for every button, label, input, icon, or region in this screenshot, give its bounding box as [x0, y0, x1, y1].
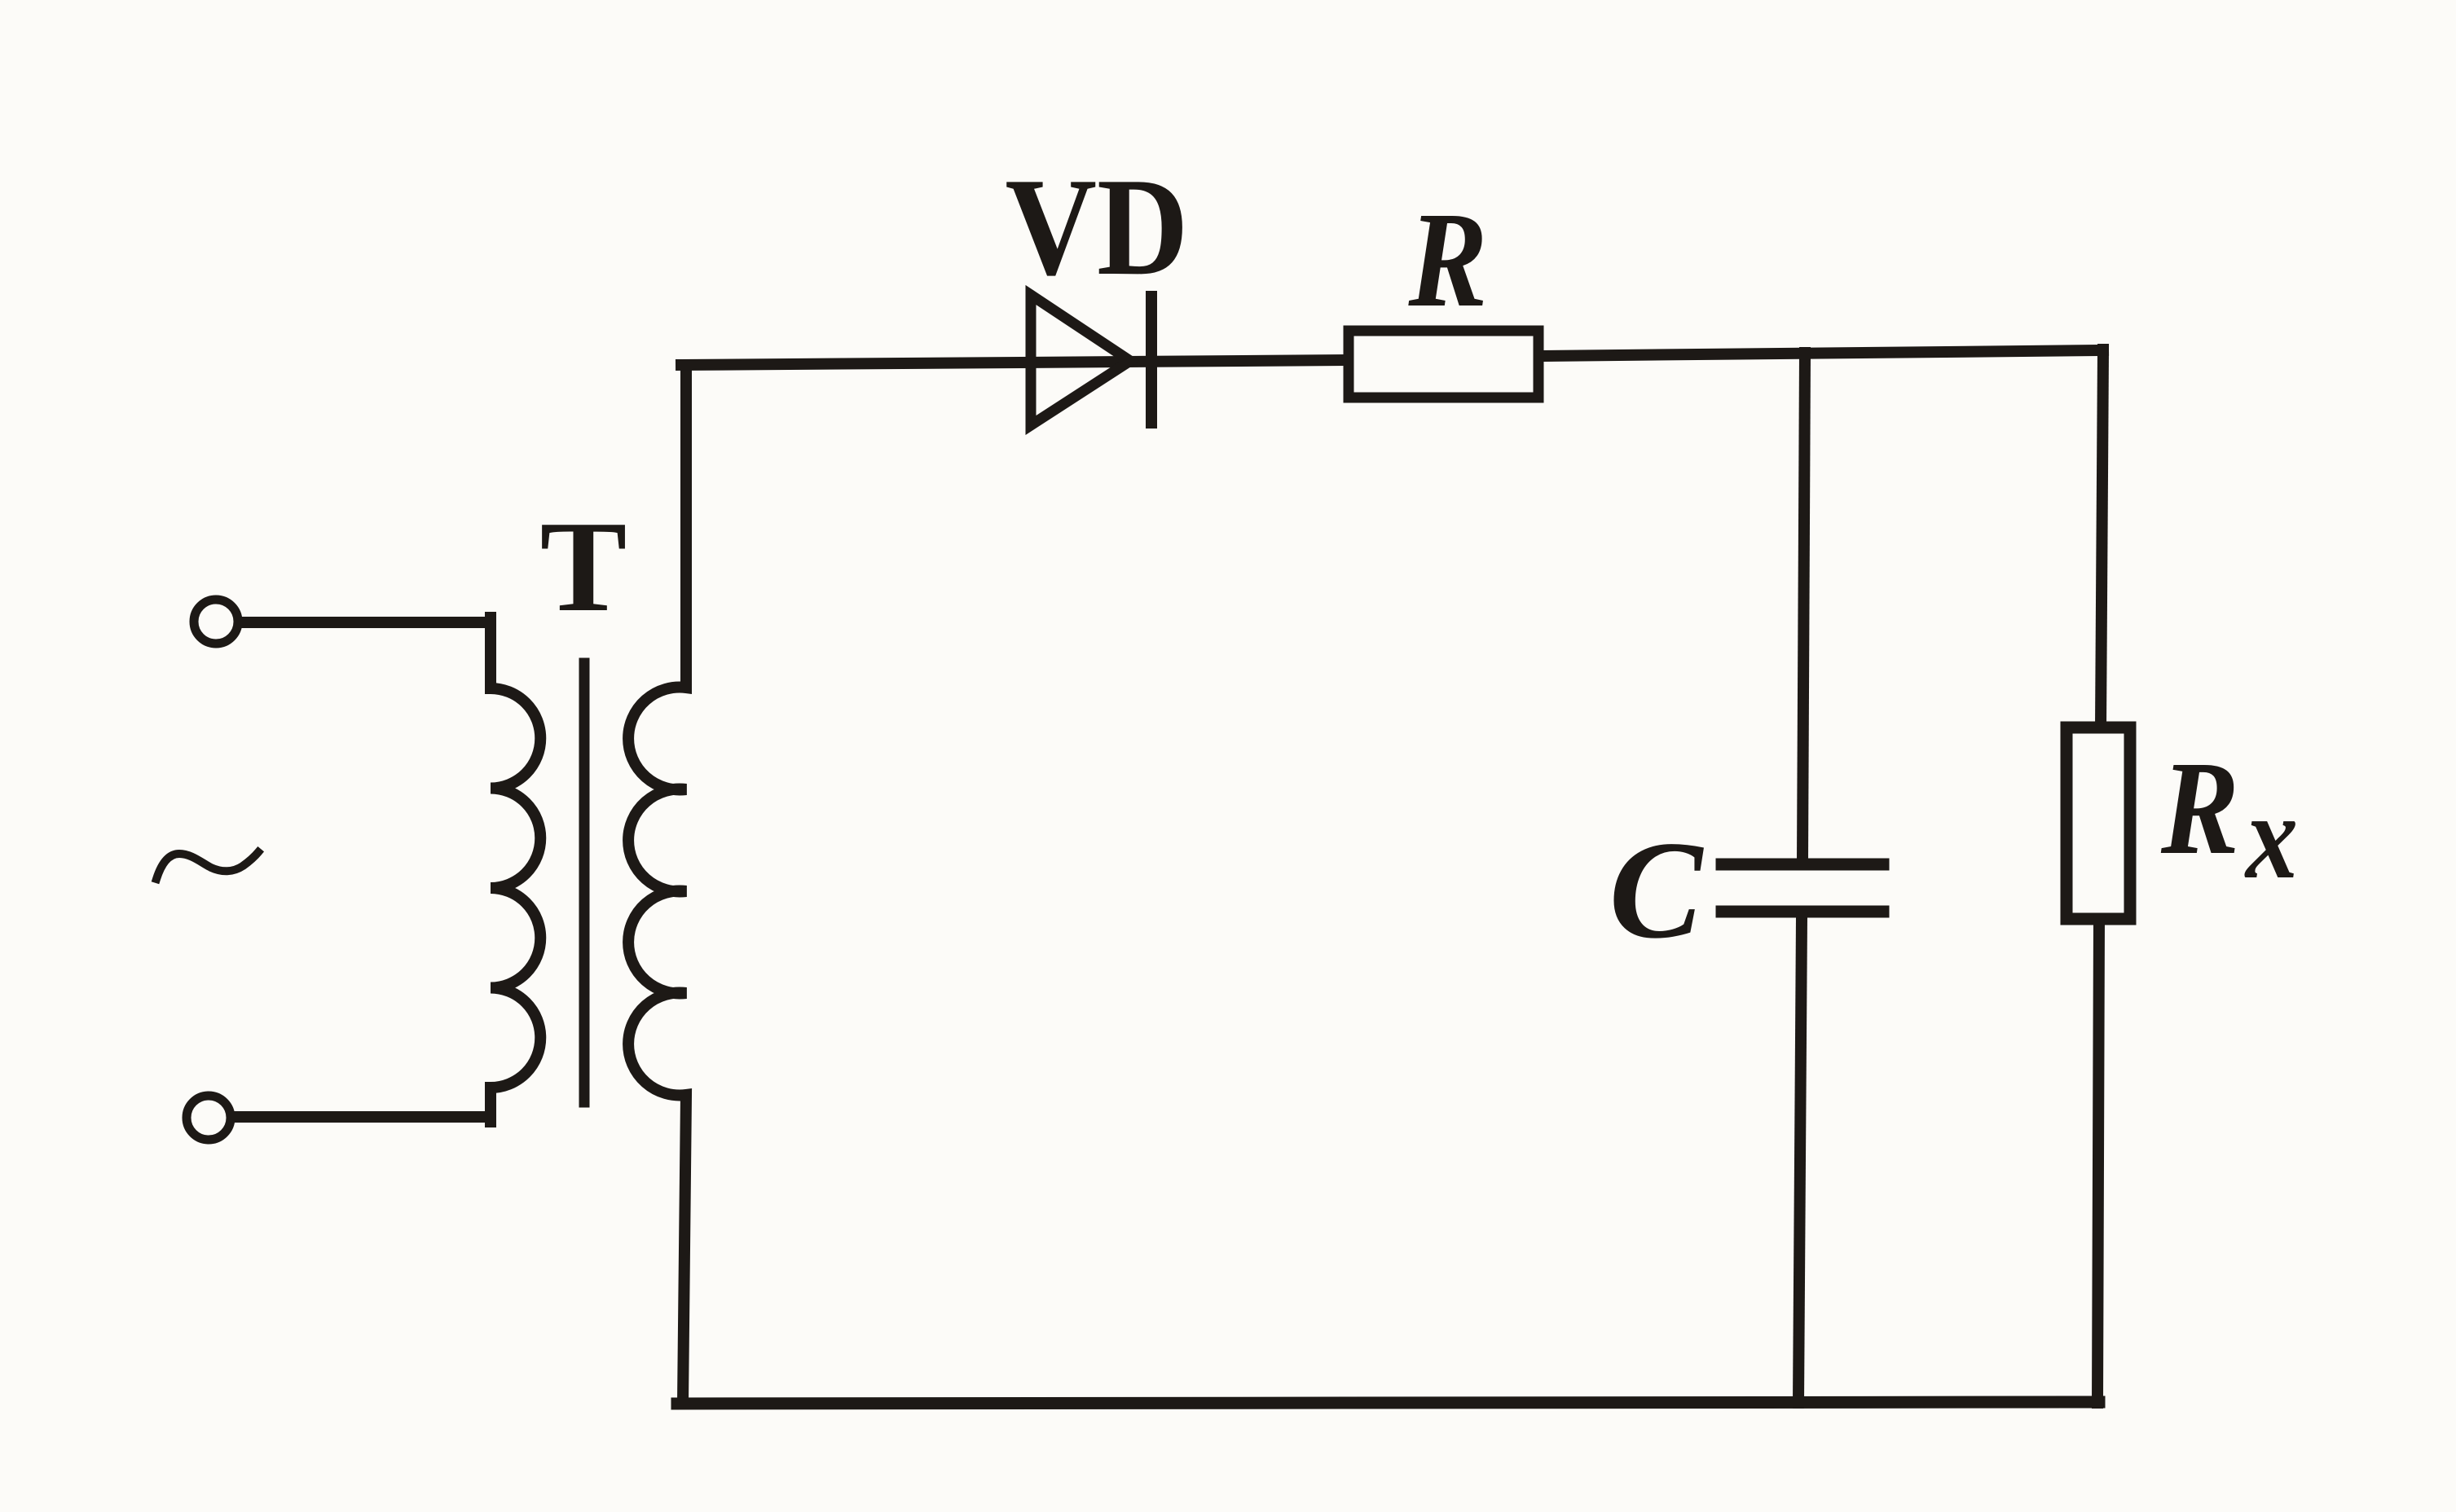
- wire top: secondary to resistor R: [681, 360, 1349, 365]
- terminal top-left: [194, 600, 238, 644]
- bottom wire: [677, 1402, 2099, 1404]
- resistor Rx: [2066, 727, 2130, 919]
- right vertical wire top: [2101, 349, 2103, 727]
- svg-text:x: x: [2244, 769, 2298, 904]
- AC source tilde: [156, 852, 258, 879]
- capacitor C lead top: [1802, 353, 1805, 860]
- transformer T secondary winding: [628, 365, 686, 1403]
- svg-text:C: C: [1609, 813, 1705, 968]
- capacitor C top plate: [1722, 859, 1883, 871]
- wire top: resistor R to top-right corner: [1540, 350, 2103, 356]
- svg-text:R: R: [2160, 733, 2239, 882]
- wire bottom terminal to primary: [234, 1111, 491, 1123]
- terminal bottom-left: [187, 1096, 231, 1140]
- svg-text:R: R: [1408, 184, 1488, 336]
- capacitor C lead bottom: [1798, 917, 1802, 1403]
- transformer T primary winding: [491, 618, 540, 1122]
- svg-text:T: T: [540, 494, 627, 639]
- right vertical wire bottom: [2097, 919, 2099, 1403]
- transformer core: [579, 663, 590, 1102]
- diode VD: [1031, 295, 1151, 425]
- resistor R: [1349, 331, 1538, 398]
- wire top terminal to primary: [241, 617, 491, 628]
- capacitor C bottom plate: [1722, 906, 1883, 918]
- svg-text:VD: VD: [1006, 150, 1189, 305]
